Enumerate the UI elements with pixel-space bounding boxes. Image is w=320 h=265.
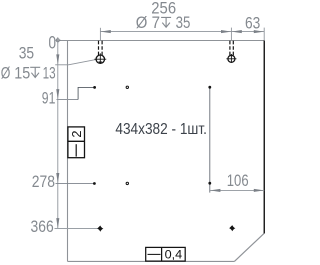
svg-text:63: 63 — [245, 15, 260, 33]
svg-text:15: 15 — [14, 65, 30, 83]
svg-text:13: 13 — [43, 65, 56, 83]
svg-text:Ø: Ø — [1, 65, 11, 83]
svg-text:35: 35 — [176, 14, 191, 32]
svg-text:106: 106 — [227, 172, 249, 190]
svg-text:434x382 - 1шт.: 434x382 - 1шт. — [115, 121, 206, 138]
svg-text:7: 7 — [152, 14, 160, 32]
svg-text:0,4: 0,4 — [165, 249, 183, 262]
svg-text:366: 366 — [31, 218, 54, 236]
svg-text:278: 278 — [32, 173, 55, 191]
svg-text:2: 2 — [69, 131, 84, 138]
svg-text:91: 91 — [42, 90, 56, 108]
svg-text:35: 35 — [19, 45, 34, 63]
svg-text:Ø: Ø — [136, 14, 148, 32]
